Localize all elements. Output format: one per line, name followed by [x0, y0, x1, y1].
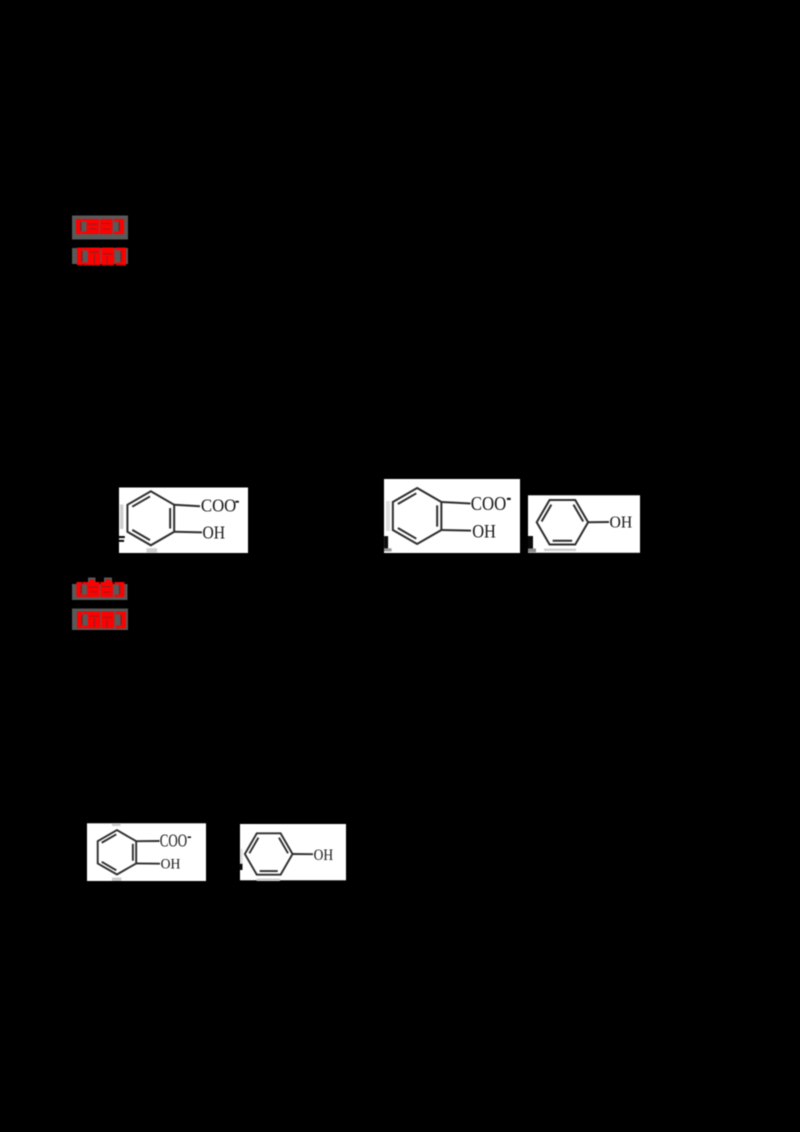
bond to COO- (box 2)	[441, 502, 470, 504]
label OH (box 2)	[472, 522, 496, 543]
bond to OH (box 5)	[293, 853, 313, 855]
bond to OH (box 1)	[174, 531, 202, 534]
svg-text:OH: OH	[472, 522, 496, 543]
bond to COO- (box 1)	[174, 505, 200, 506]
svg-text:COO: COO	[201, 496, 236, 516]
svg-text:COO: COO	[471, 493, 506, 515]
highlight label 4 gray background	[72, 609, 128, 631]
benzene ring 4	[98, 830, 136, 874]
highlight label 4 red text [analysis]	[77, 612, 126, 629]
text fragment at left edge of box 2	[384, 536, 392, 551]
highlight label 3 red text [answer]	[76, 580, 124, 598]
bond to OH (box 4)	[136, 862, 160, 864]
svg-text:OH: OH	[203, 522, 226, 542]
text fragment at left edge of box 1	[119, 536, 125, 542]
inline image box 3: phenol	[528, 495, 640, 553]
benzene ring 1	[127, 491, 174, 545]
text fragment at left edge of box 5	[239, 864, 242, 870]
highlight label 2 red text [analysis]	[77, 248, 126, 266]
label OH (box 5)	[314, 847, 334, 864]
svg-text:COO: COO	[160, 831, 187, 851]
inline image box 4: salicylate ion	[87, 823, 206, 881]
inline image box 5: phenol	[240, 824, 346, 881]
label COO- (box 1)	[201, 496, 239, 516]
highlight label 1 gray background	[72, 216, 128, 240]
svg-text:OH: OH	[161, 857, 181, 873]
highlight label 3 gray background with tabs	[72, 578, 128, 601]
inline image box 1: salicylate ion	[119, 488, 248, 554]
bond to COO- (box 4)	[136, 840, 159, 842]
label OH (box 1)	[203, 522, 226, 542]
bond to OH (box 3)	[588, 521, 609, 523]
benzene ring 3	[537, 500, 588, 545]
label OH (box 4)	[161, 857, 181, 873]
highlight label 2 gray background	[72, 248, 128, 264]
svg-text:OH: OH	[610, 512, 633, 531]
benzene ring 2	[393, 488, 442, 544]
highlight label 1 red text [answer]	[76, 219, 124, 234]
inline image box 2: salicylate ion	[384, 479, 520, 553]
label OH (box 3)	[610, 512, 633, 531]
benzene ring 5	[245, 833, 293, 874]
label COO- (box 2)	[471, 493, 511, 515]
label COO- (box 4)	[160, 831, 191, 851]
bond to OH (box 2)	[441, 529, 471, 532]
text fragment at left edge of box 3	[528, 536, 536, 552]
svg-text:OH: OH	[314, 847, 334, 864]
